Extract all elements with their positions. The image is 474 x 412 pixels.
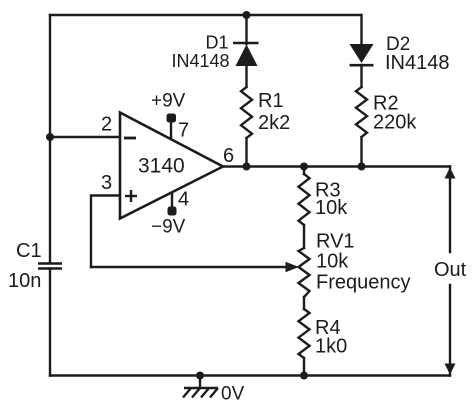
wire RV1 to R4: [303, 297, 305, 309]
diode D1: [233, 43, 259, 66]
output arrowhead down: [445, 364, 456, 375]
svg-text:2k2: 2k2: [258, 112, 290, 134]
wire left rail upper: [49, 15, 51, 263]
resistor R1: [241, 87, 252, 138]
pin 7 supply stub: [170, 121, 172, 140]
op-amp U1 3140 body: [120, 113, 223, 219]
wire R3 to RV1: [303, 225, 305, 248]
wire non-inverting input pin 3 stub: [91, 196, 120, 268]
svg-text:−9V: −9V: [151, 217, 186, 238]
diode D2: [350, 44, 374, 65]
node top rail / D1 junction: [243, 11, 251, 19]
svg-text:2: 2: [101, 114, 112, 136]
svg-text:Frequency: Frequency: [316, 272, 411, 294]
wire R2 to output node: [360, 137, 362, 167]
wire left rail lower: [49, 269, 51, 376]
ground symbol: [183, 388, 218, 398]
svg-text:220k: 220k: [373, 112, 417, 134]
potentiometer RV1 track: [299, 248, 310, 297]
svg-text:D1: D1: [206, 33, 229, 53]
wire feedback to RV1 wiper: [91, 266, 286, 268]
node output / R2 junction: [358, 163, 366, 171]
capacitor C1: [38, 264, 62, 269]
wire output pin 6: [222, 165, 450, 167]
svg-text:7: 7: [178, 120, 189, 142]
svg-text:10k: 10k: [316, 251, 349, 273]
svg-text:3: 3: [101, 172, 112, 194]
ground stub: [199, 376, 201, 389]
pin 7 supply dot: [167, 114, 177, 123]
node output / R3 junction: [300, 163, 308, 171]
wire output arrow lower segment: [449, 285, 451, 376]
wire D2 branch top: [360, 15, 362, 44]
wire D1 to R1: [245, 66, 247, 87]
svg-text:10n: 10n: [8, 270, 41, 292]
node output / R1 junction: [243, 163, 251, 171]
wire R4 to bottom rail: [303, 358, 305, 376]
svg-text:Out: Out: [434, 259, 467, 281]
wire output node to R3: [303, 167, 305, 175]
RV1 wiper arrowhead: [286, 262, 300, 273]
node bottom rail / ground junction: [196, 372, 204, 380]
svg-text:IN4148: IN4148: [385, 52, 450, 74]
pin 4 supply dot: [168, 207, 177, 216]
resistor R3: [299, 174, 310, 225]
svg-text:4: 4: [178, 189, 189, 211]
svg-text:1k0: 1k0: [315, 336, 347, 358]
wire bottom rail: [50, 374, 450, 376]
pin 4 supply stub: [171, 192, 173, 208]
svg-text:10k: 10k: [315, 197, 348, 219]
wire inverting input pin 2: [50, 136, 120, 138]
wire top rail: [50, 14, 361, 16]
op-amp non-inverting input marker: [125, 190, 137, 202]
resistor R4: [299, 309, 310, 358]
op-amp inverting input marker: [124, 137, 136, 140]
node bottom rail / R4 junction: [300, 372, 308, 380]
wire output right corner down upper segment: [449, 167, 451, 253]
wire D2 to R2: [360, 65, 362, 87]
svg-text:6: 6: [223, 145, 234, 167]
svg-text:R1: R1: [258, 90, 284, 112]
resistor R2: [356, 87, 367, 137]
wire R1 to output node: [245, 138, 247, 167]
output arrowhead up: [445, 168, 456, 179]
svg-text:RV1: RV1: [316, 231, 355, 253]
svg-text:0V: 0V: [221, 384, 245, 405]
svg-text:C1: C1: [16, 240, 42, 262]
svg-text:3140: 3140: [138, 155, 185, 178]
node left rail / pin 2 junction: [46, 133, 54, 141]
svg-text:IN4148: IN4148: [172, 51, 230, 71]
svg-text:+9V: +9V: [151, 91, 186, 112]
wire D1 branch top: [245, 15, 247, 44]
